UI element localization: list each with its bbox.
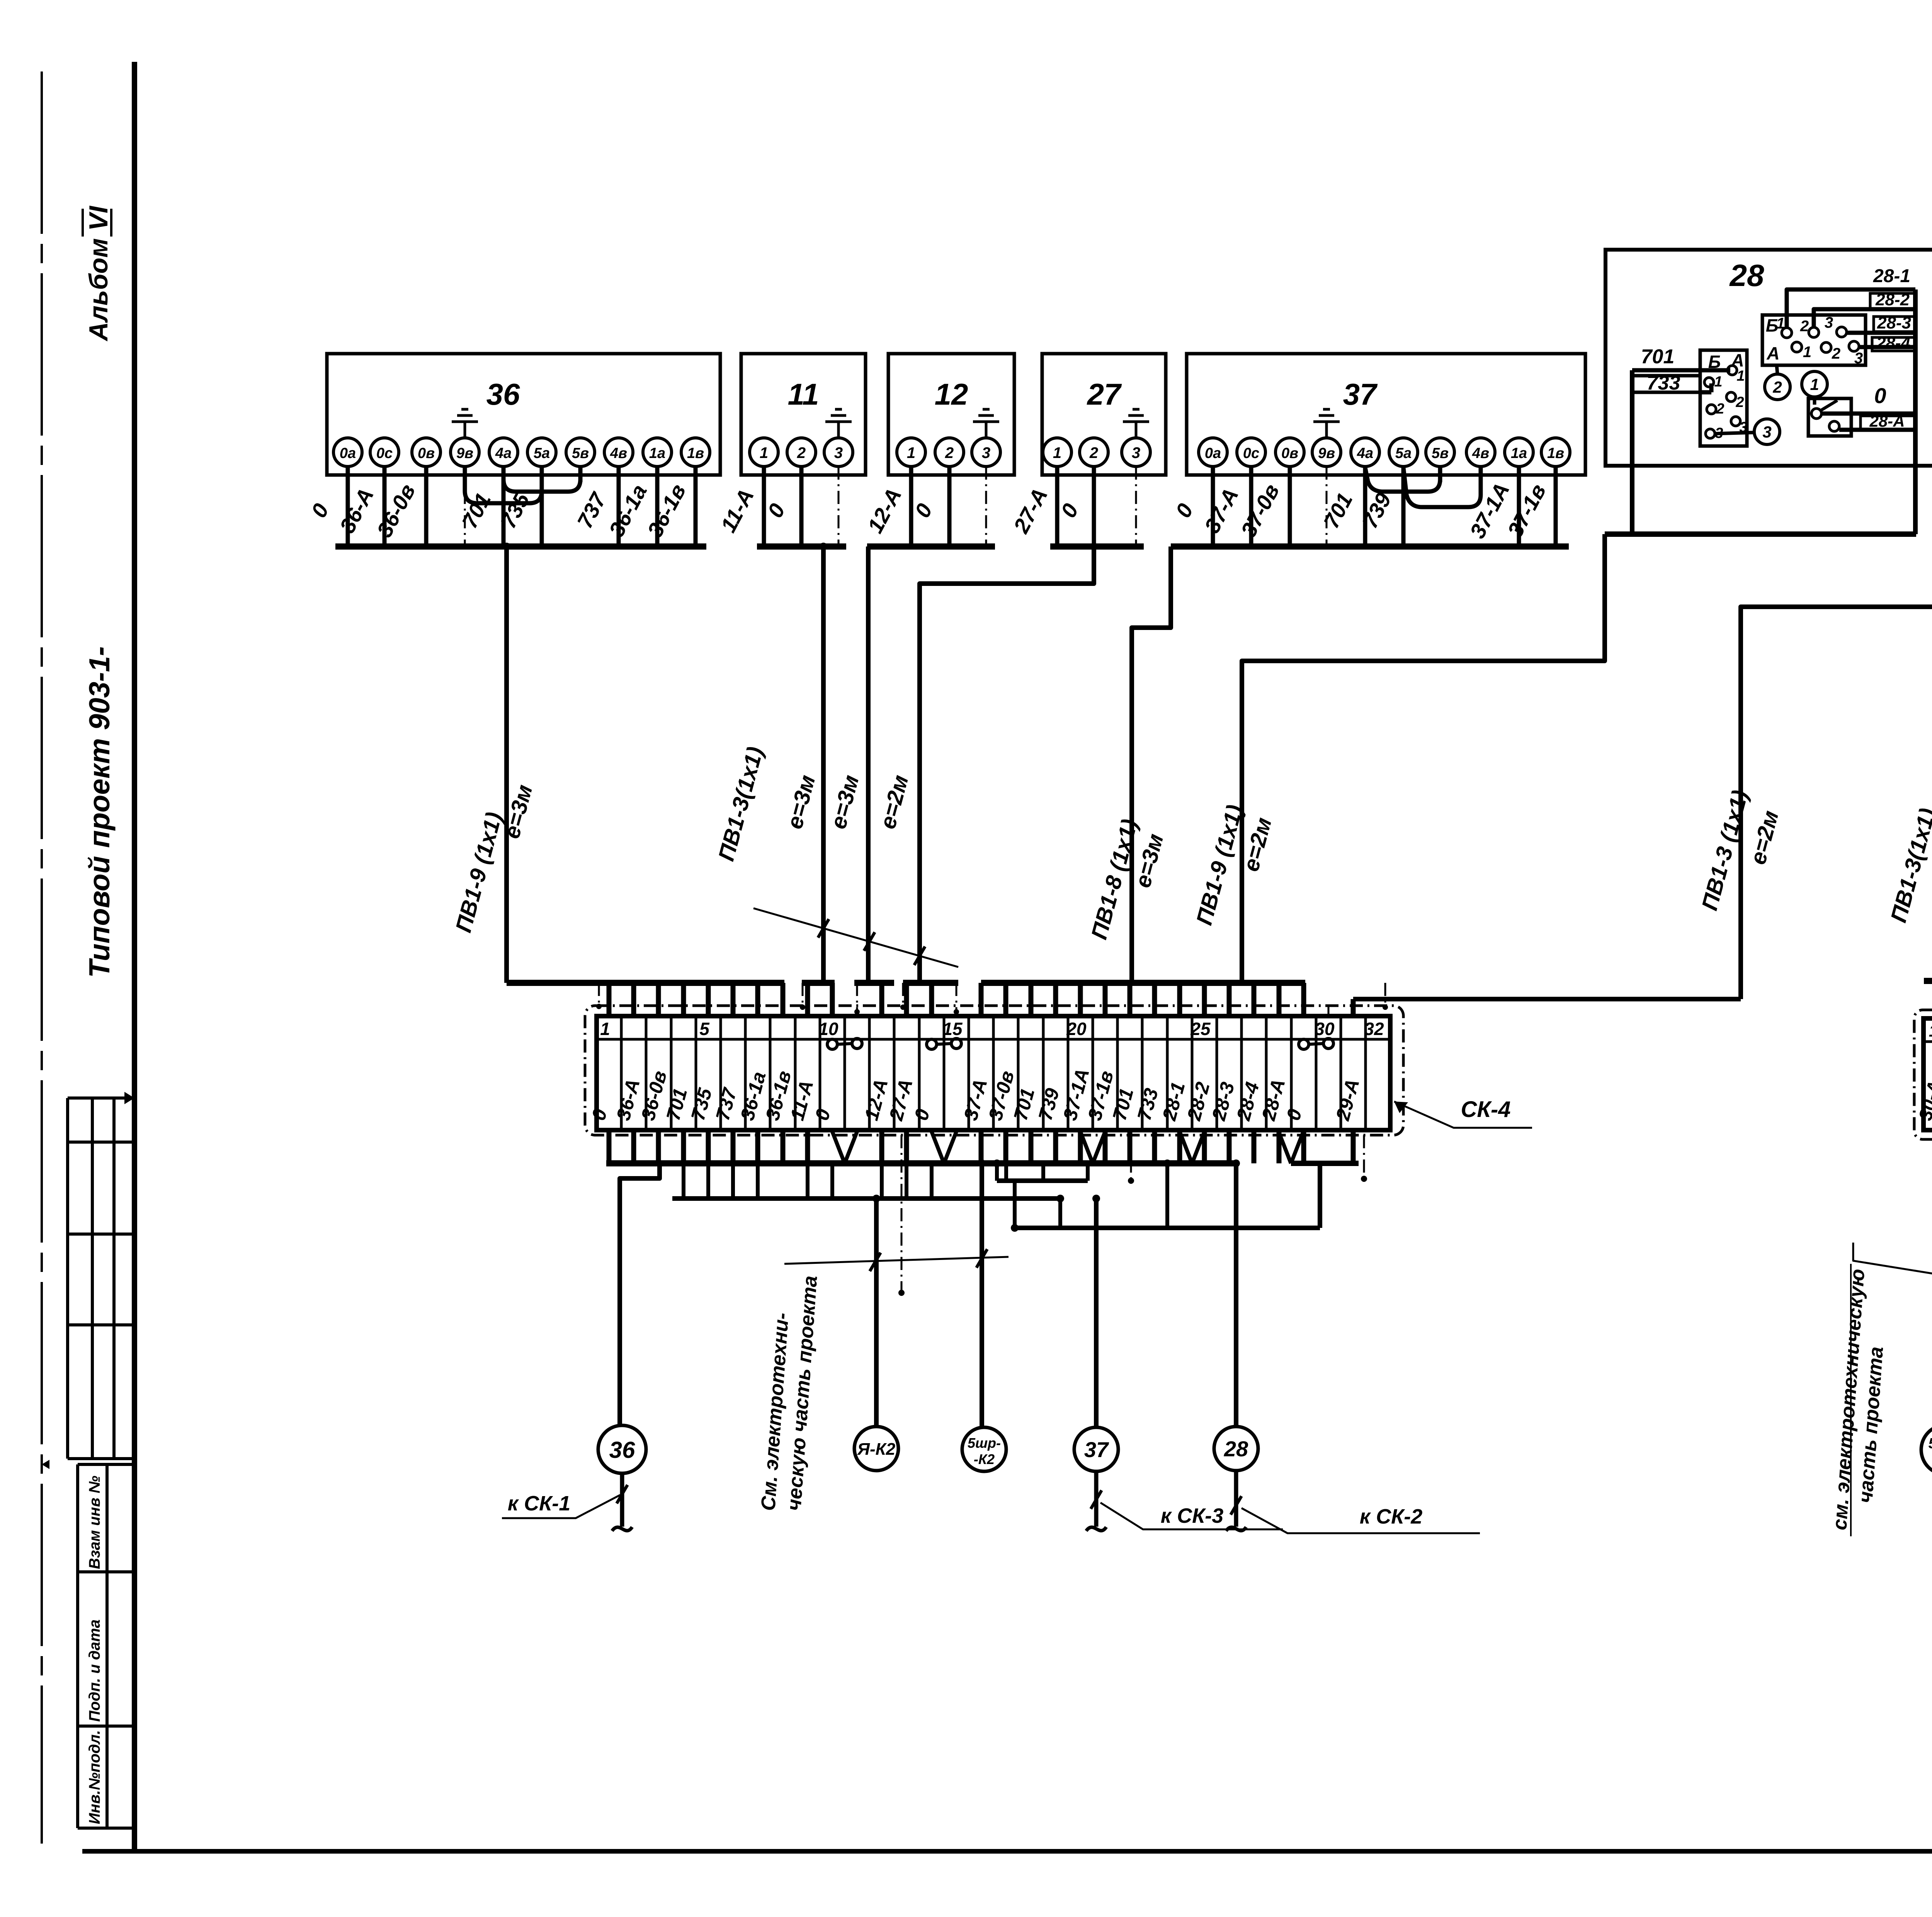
svg-text:4а: 4а <box>495 445 512 461</box>
svg-text:25: 25 <box>1190 1019 1211 1039</box>
svg-text:Подп. и дата: Подп. и дата <box>86 1619 103 1722</box>
svg-text:2: 2 <box>1772 378 1782 396</box>
svg-text:-К2: -К2 <box>974 1451 995 1467</box>
svg-text:4в: 4в <box>610 445 627 461</box>
svg-text:1в: 1в <box>687 445 704 461</box>
svg-text:3: 3 <box>1825 314 1833 331</box>
svg-text:3: 3 <box>982 444 990 461</box>
svg-text:5шр-: 5шр- <box>968 1435 1001 1451</box>
svg-text:1а: 1а <box>1511 445 1527 461</box>
svg-text:11: 11 <box>788 377 819 411</box>
svg-text:к СК-3: к СК-3 <box>1161 1504 1224 1527</box>
svg-text:2: 2 <box>1832 345 1840 362</box>
svg-text:5шр-: 5шр- <box>1929 1435 1932 1452</box>
svg-text:Я-К2: Я-К2 <box>857 1440 896 1459</box>
svg-text:3: 3 <box>1132 444 1140 461</box>
svg-text:20: 20 <box>1066 1019 1087 1039</box>
svg-text:3: 3 <box>1854 350 1863 367</box>
svg-text:9в: 9в <box>1318 445 1335 461</box>
svg-text:1: 1 <box>1929 1021 1932 1040</box>
svg-text:36: 36 <box>486 377 520 411</box>
svg-text:36: 36 <box>609 1437 635 1463</box>
svg-text:28: 28 <box>1224 1437 1248 1461</box>
svg-text:2: 2 <box>1800 318 1809 335</box>
svg-text:А: А <box>1766 343 1779 363</box>
svg-text:Взам инв №: Взам инв № <box>86 1476 103 1569</box>
svg-text:28-4: 28-4 <box>1876 334 1910 352</box>
svg-text:0а: 0а <box>1205 445 1221 461</box>
svg-text:0в: 0в <box>418 445 435 461</box>
svg-text:2: 2 <box>1716 401 1724 417</box>
svg-text:0с: 0с <box>376 445 393 461</box>
svg-text:4в: 4в <box>1472 445 1489 461</box>
svg-text:1: 1 <box>600 1019 610 1039</box>
svg-text:1: 1 <box>1810 375 1819 393</box>
svg-text:1: 1 <box>760 444 768 461</box>
svg-text:0: 0 <box>1874 383 1886 408</box>
svg-text:10: 10 <box>818 1019 838 1039</box>
svg-text:1: 1 <box>1053 444 1061 461</box>
svg-text:0в: 0в <box>1281 445 1298 461</box>
svg-text:3: 3 <box>1762 423 1771 441</box>
svg-text:1а: 1а <box>649 445 665 461</box>
svg-text:28-2: 28-2 <box>1875 290 1910 309</box>
svg-text:28-3: 28-3 <box>1877 313 1911 332</box>
svg-text:5а: 5а <box>1395 445 1412 461</box>
svg-text:32: 32 <box>1364 1019 1384 1039</box>
svg-text:28-1: 28-1 <box>1873 266 1910 286</box>
svg-text:28: 28 <box>1729 258 1764 293</box>
svg-text:1: 1 <box>1736 368 1745 384</box>
svg-text:4а: 4а <box>1357 445 1373 461</box>
svg-text:СК-4: СК-4 <box>1461 1097 1510 1122</box>
svg-text:37: 37 <box>1343 377 1378 411</box>
svg-text:5в: 5в <box>572 445 589 461</box>
svg-text:2: 2 <box>1735 394 1744 410</box>
svg-text:28-А: 28-А <box>1869 412 1905 430</box>
svg-text:Типовой проект 903-1-: Типовой проект 903-1- <box>83 646 116 978</box>
svg-text:5а: 5а <box>534 445 550 461</box>
svg-text:1: 1 <box>1714 374 1722 390</box>
svg-text:5в: 5в <box>1432 445 1449 461</box>
svg-text:701: 701 <box>1641 346 1675 368</box>
svg-text:37: 37 <box>1084 1437 1109 1462</box>
svg-text:12: 12 <box>935 377 968 411</box>
svg-text:1в: 1в <box>1547 445 1564 461</box>
svg-text:2: 2 <box>1089 444 1098 461</box>
svg-text:Альбом VI: Альбом VI <box>84 205 113 342</box>
svg-text:2: 2 <box>797 444 806 461</box>
svg-text:9в: 9в <box>456 445 473 461</box>
svg-text:А: А <box>1731 350 1744 370</box>
svg-text:0а: 0а <box>340 445 356 461</box>
svg-text:к СК-2: к СК-2 <box>1360 1505 1423 1528</box>
svg-text:5: 5 <box>699 1019 710 1039</box>
svg-text:Б: Б <box>1708 352 1721 372</box>
svg-text:1: 1 <box>1803 344 1811 361</box>
svg-text:Инв.№подл.: Инв.№подл. <box>86 1730 103 1824</box>
svg-text:15: 15 <box>942 1019 963 1039</box>
svg-text:3: 3 <box>834 444 843 461</box>
svg-text:733: 733 <box>1647 372 1680 394</box>
svg-text:0с: 0с <box>1243 445 1259 461</box>
svg-text:к СК-1: к СК-1 <box>508 1492 571 1515</box>
svg-text:30: 30 <box>1315 1019 1335 1039</box>
svg-text:1: 1 <box>1776 315 1785 332</box>
svg-text:1: 1 <box>907 444 915 461</box>
svg-text:27: 27 <box>1087 377 1122 411</box>
svg-text:2: 2 <box>945 444 954 461</box>
